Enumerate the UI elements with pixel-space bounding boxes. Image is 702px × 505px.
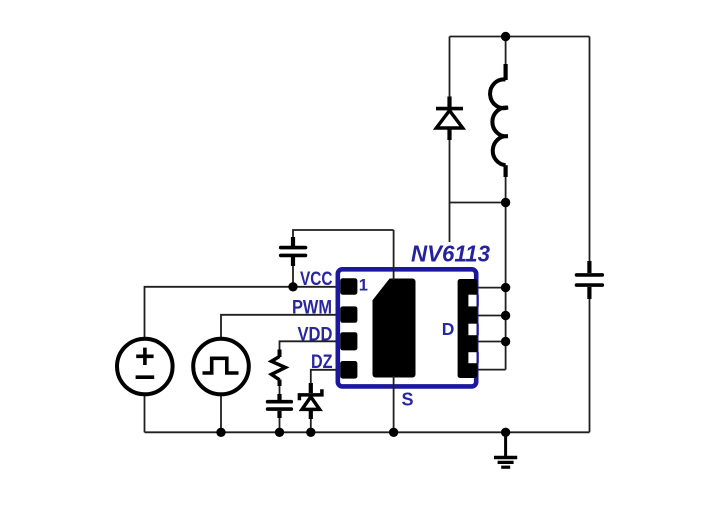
wire D pin 4 to drain net	[476, 369, 506, 371]
wire loop bottom horizontal	[450, 202, 506, 204]
wire DC source top lead and VCC wire	[145, 287, 341, 339]
zener diode DZ1	[299, 383, 322, 419]
DC source V1	[117, 339, 173, 395]
wire D pin 3 to drain net	[476, 341, 506, 343]
drain pad column	[458, 279, 478, 378]
wire top rail (diode/inductor loop top)	[450, 36, 590, 38]
svg-text:VCC: VCC	[300, 269, 333, 290]
junction node drain wire 3	[501, 337, 510, 346]
wire inductor branch top	[505, 37, 507, 66]
wire PWM source bottom lead	[220, 395, 222, 433]
pad pin1 VCC	[340, 278, 357, 294]
wire right vertical upper (top rail to output cap)	[589, 37, 591, 264]
capacitor C3 (output cap, right side)	[577, 261, 603, 299]
wire D pin 2 to drain net	[476, 315, 506, 317]
inductor L1	[490, 64, 508, 177]
junction node S bottom	[389, 428, 398, 437]
wire S net vertical upper (crosses package top)	[393, 230, 395, 280]
wire right vertical lower (output cap to bottom rail)	[589, 297, 591, 432]
svg-text:VDD: VDD	[298, 325, 333, 346]
junction node drain wire 2	[501, 311, 510, 320]
U1 package border	[338, 269, 476, 386]
wire DZ wire and zener top lead	[311, 370, 340, 386]
capacitor C2 (VDD cap under resistor)	[268, 394, 292, 418]
wire zener bottom lead	[310, 416, 312, 432]
wire resistor to cap link	[279, 381, 281, 399]
resistor R1	[271, 350, 285, 387]
PWM source V2	[193, 339, 249, 395]
wire DC source bottom lead	[144, 395, 146, 433]
wire drain net vertical	[505, 203, 507, 370]
wire S net vertical lower (exits package bottom)	[393, 376, 395, 432]
wire VDD wire and resistor top lead	[280, 341, 341, 352]
wire VCC cap top lead, over to S net	[293, 230, 394, 243]
junction node drain wire 1	[501, 283, 510, 292]
junction node PWM bottom	[216, 428, 225, 437]
capacitor C1 (VCC bypass, top)	[281, 237, 306, 266]
junction node top (inductor top)	[501, 32, 510, 41]
wire bottom ground rail	[145, 431, 590, 433]
wire left branch vertical to diode	[449, 37, 451, 98]
svg-text:NV6113: NV6113	[411, 241, 490, 267]
junction node ground	[501, 428, 510, 437]
wire inductor branch bottom	[505, 176, 507, 203]
junction node zener bottom	[306, 428, 315, 437]
wire VDD cap bottom lead	[279, 412, 281, 432]
wire stub continuing below loop toward IC (ends above NV6113 text)	[449, 203, 451, 243]
drain pad notches	[468, 295, 476, 364]
svg-text:1: 1	[359, 277, 368, 295]
junction node VDD cap bottom	[275, 428, 284, 437]
wire PWM source top lead and PWM wire	[221, 315, 340, 339]
diode D1	[436, 97, 463, 141]
svg-text:DZ: DZ	[311, 352, 333, 373]
pad pin2 PWM	[340, 306, 357, 322]
svg-text:PWM: PWM	[292, 298, 332, 319]
pad pin3 VDD	[340, 332, 357, 350]
pad pin4 DZ	[340, 361, 357, 379]
drain pad notch border slivers	[477, 295, 479, 364]
junction node VCC cap	[288, 282, 297, 291]
wire D pin 1 to drain net	[476, 287, 506, 289]
ground	[494, 432, 517, 467]
svg-text:S: S	[402, 390, 414, 410]
wire below diode down to loop bottom	[449, 139, 451, 203]
junction node loop bottom	[501, 198, 510, 207]
thermal pad (source paddle)	[373, 279, 416, 378]
wire VCC bypass cap lower lead	[292, 260, 294, 287]
svg-text:D: D	[442, 319, 455, 339]
